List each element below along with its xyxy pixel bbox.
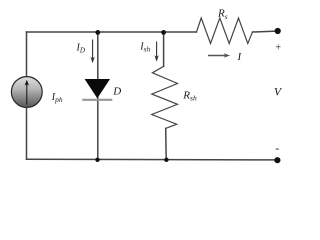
svg-text:-: - <box>275 141 279 155</box>
svg-text:I: I <box>237 51 243 63</box>
svg-text:Rs: Rs <box>217 8 228 21</box>
svg-text:Ish: Ish <box>139 42 150 54</box>
svg-text:Iph: Iph <box>51 92 63 104</box>
svg-text:V: V <box>274 87 283 99</box>
svg-text:Rsh: Rsh <box>182 90 197 103</box>
svg-text:+: + <box>275 42 281 53</box>
svg-text:ID: ID <box>76 42 85 54</box>
svg-text:D: D <box>112 86 121 98</box>
